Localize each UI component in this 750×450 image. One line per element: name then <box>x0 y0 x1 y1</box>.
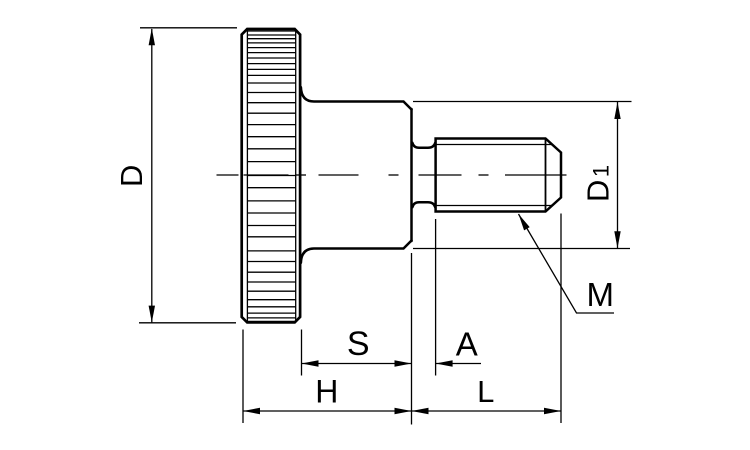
D top extension line <box>140 27 237 29</box>
neck top <box>412 143 435 148</box>
D1 top extension line <box>413 101 632 103</box>
D1 arrow up <box>614 102 620 119</box>
H left extension line <box>242 330 244 424</box>
boss outline bottom <box>301 241 412 263</box>
L arrow left <box>412 408 429 414</box>
D bottom extension line <box>139 322 236 324</box>
D dimension line <box>151 29 153 322</box>
H arrow right <box>395 408 412 414</box>
svg-text:M: M <box>587 276 615 313</box>
L right extension line <box>560 214 562 424</box>
common extension line at boss right <box>411 253 413 425</box>
H arrow left <box>243 408 260 414</box>
head chamfer inner line right <box>295 30 297 321</box>
L arrow right <box>544 408 561 414</box>
H dimension line <box>243 410 412 412</box>
svg-text:A: A <box>456 325 478 362</box>
D arrow down <box>149 306 155 323</box>
knurl lines <box>247 31 295 321</box>
A arrow (outside, pointing left) <box>436 360 453 366</box>
knurled head outline <box>242 29 300 322</box>
thread chamfer circle line <box>545 139 547 211</box>
svg-text:H: H <box>315 374 338 410</box>
A leader line <box>436 363 481 365</box>
D1 bottom extension line <box>413 248 630 250</box>
S arrow left <box>302 360 319 366</box>
boss outline top <box>301 87 412 109</box>
thread minor dia top <box>436 144 551 146</box>
S arrow right <box>395 360 412 366</box>
centerline <box>217 174 239 176</box>
threaded shank outline <box>436 139 561 212</box>
D1 dimension line <box>617 102 619 248</box>
boss right edge <box>410 109 413 241</box>
S left extension line <box>301 330 303 376</box>
A extension line (thread start) <box>435 219 437 376</box>
svg-text:S: S <box>347 325 370 363</box>
D arrow up <box>149 28 155 45</box>
L dimension line <box>412 410 562 412</box>
S dimension line <box>302 363 412 365</box>
thread minor dia bottom <box>436 205 552 207</box>
M leader line <box>519 214 615 313</box>
svg-text:D: D <box>114 165 149 187</box>
D1 arrow down <box>614 231 620 248</box>
neck bottom <box>412 202 435 207</box>
svg-text:L: L <box>477 374 494 409</box>
head chamfer inner line left <box>246 30 248 321</box>
M leader arrow <box>519 214 530 230</box>
